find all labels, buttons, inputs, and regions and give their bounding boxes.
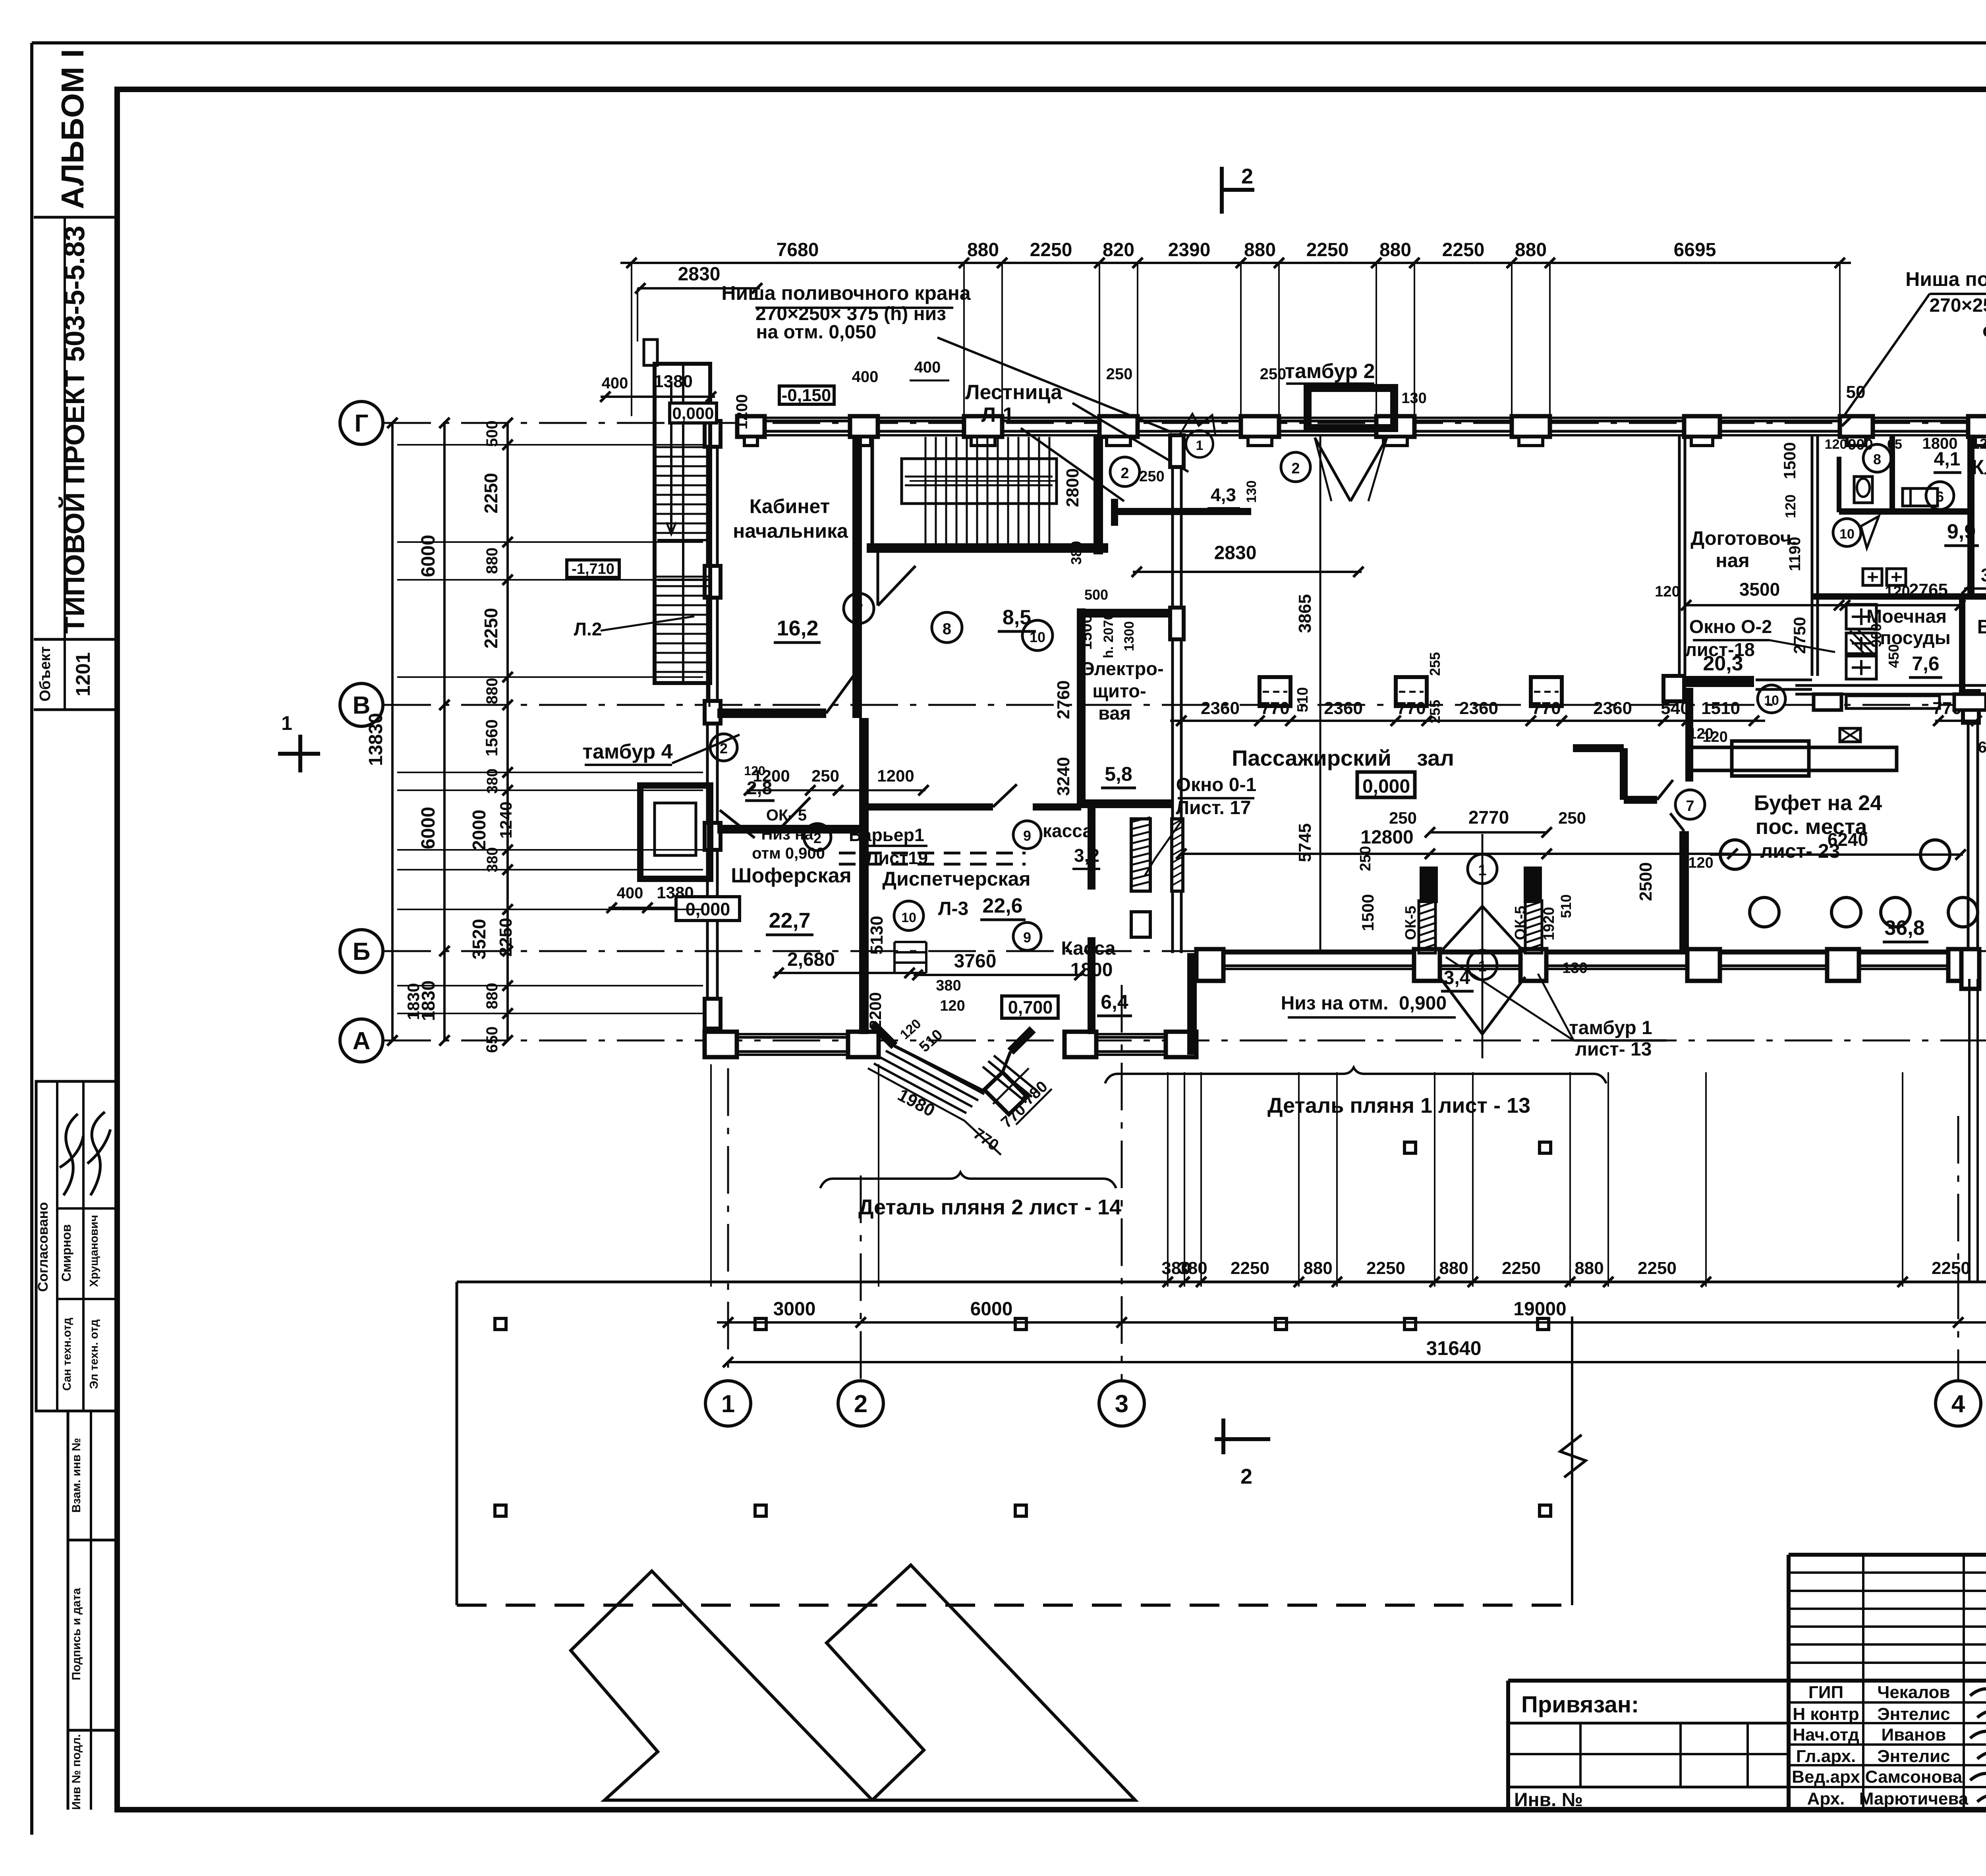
bay steps left flight <box>874 1044 984 1113</box>
svg-text:Инв № подл.: Инв № подл. <box>70 1734 83 1810</box>
svg-text:2250: 2250 <box>1932 1258 1971 1278</box>
kabinet door <box>826 675 854 713</box>
svg-text:5745: 5745 <box>1295 823 1315 862</box>
svg-text:Привязан:: Привязан: <box>1521 1692 1639 1718</box>
bottom dim row A <box>1157 1281 1717 1283</box>
svg-text:880: 880 <box>483 548 501 574</box>
sill rects below service block <box>1846 696 1940 708</box>
svg-text:Окно О-2: Окно О-2 <box>1689 616 1772 637</box>
bay landing platform <box>984 1072 1027 1114</box>
svg-text:Лист. 17: Лист. 17 <box>1176 797 1251 818</box>
svg-text:ОК-5: ОК-5 <box>1403 906 1419 940</box>
bottom witness lines <box>1167 1072 1169 1287</box>
svg-text:31640: 31640 <box>1426 1337 1481 1359</box>
svg-text:880: 880 <box>483 983 501 1009</box>
svg-text:Согласовано: Согласовано <box>35 1202 51 1292</box>
bay dimensions <box>868 1068 964 1121</box>
svg-text:1560: 1560 <box>482 719 501 756</box>
svg-text:А: А <box>353 1027 371 1055</box>
svg-text:880: 880 <box>483 678 501 704</box>
svg-text:Взам. инв №: Взам. инв № <box>70 1438 83 1513</box>
svg-text:Пассажирский: Пассажирский <box>1232 745 1391 770</box>
south wall centre hall and buffet <box>1196 952 1978 955</box>
svg-text:10: 10 <box>1030 629 1045 645</box>
bay steps right flight <box>983 1056 1037 1102</box>
shoferskaya walls <box>717 825 864 834</box>
svg-text:2390: 2390 <box>1168 239 1211 261</box>
level box -1.710 <box>567 560 619 577</box>
svg-text:250: 250 <box>1139 468 1164 485</box>
svg-text:510: 510 <box>1558 894 1574 918</box>
svg-text:2: 2 <box>1121 465 1129 482</box>
svg-text:120: 120 <box>1825 437 1847 452</box>
svg-text:2500: 2500 <box>1636 862 1656 901</box>
wall hall/buffet <box>1573 744 1624 752</box>
svg-text:2360: 2360 <box>1201 699 1240 718</box>
svg-text:Л.2: Л.2 <box>574 619 602 639</box>
svg-text:9,9: 9,9 <box>1947 520 1976 543</box>
svg-text:900: 900 <box>1848 436 1873 453</box>
section 2 bottom mark <box>1221 1419 1225 1454</box>
svg-text:3865: 3865 <box>1295 594 1315 633</box>
svg-text:13830: 13830 <box>365 713 386 766</box>
diagonal entrance bay walls <box>872 1024 894 1046</box>
svg-text:2830: 2830 <box>1214 542 1257 564</box>
svg-text:тамбур 4: тамбур 4 <box>583 740 673 763</box>
approval signatures <box>60 1114 83 1195</box>
north exterior wall window band <box>737 420 1986 423</box>
svg-text:380: 380 <box>484 847 501 872</box>
svg-text:2: 2 <box>1241 164 1253 188</box>
svg-text:начальника: начальника <box>733 520 848 542</box>
svg-text:130: 130 <box>1244 481 1259 503</box>
svg-text:Деталь пляня 1 лист - 13: Деталь пляня 1 лист - 13 <box>1267 1094 1530 1117</box>
svg-text:880: 880 <box>1303 1258 1332 1278</box>
axis circles left <box>340 401 383 444</box>
top witness lines <box>631 263 632 416</box>
buffet entry wall <box>1685 688 1693 782</box>
svg-text:10: 10 <box>1764 693 1779 708</box>
svg-text:3300: 3300 <box>1981 565 1986 585</box>
svg-text:ТИПОВОЙ ПРОЕКТ 503-5-5.83: ТИПОВОЙ ПРОЕКТ 503-5-5.83 <box>59 226 91 634</box>
svg-text:3500: 3500 <box>1739 579 1780 600</box>
svg-text:Чекалов: Чекалов <box>1877 1683 1950 1702</box>
dispatcher north wall <box>868 803 993 811</box>
svg-text:2250: 2250 <box>1306 239 1349 261</box>
svg-text:касса: касса <box>1043 820 1093 841</box>
svg-text:36,8: 36,8 <box>1884 917 1924 940</box>
svg-text:Объект: Объект <box>37 647 54 702</box>
svg-text:1240: 1240 <box>496 801 515 838</box>
svg-text:Диспетчерская: Диспетчерская <box>882 868 1030 890</box>
sheet outer border <box>32 41 1986 44</box>
svg-text:Ниша поливочного кряня: Ниша поливочного кряня <box>1905 268 1986 290</box>
svg-text:Электро-: Электро- <box>1081 658 1163 679</box>
svg-text:22,7: 22,7 <box>769 909 810 932</box>
svg-text:1: 1 <box>721 1390 735 1418</box>
svg-text:250: 250 <box>811 766 839 785</box>
svg-text:Лист19: Лист19 <box>866 848 928 868</box>
svg-text:120: 120 <box>1972 436 1986 452</box>
svg-text:7: 7 <box>854 601 863 619</box>
svg-text:Арх.: Арх. <box>1807 1789 1845 1808</box>
svg-text:Г: Г <box>354 410 368 437</box>
column squares <box>495 1318 506 1330</box>
svg-text:Подпись и дата: Подпись и дата <box>70 1588 83 1680</box>
svg-text:1300: 1300 <box>1122 621 1137 651</box>
svg-text:10: 10 <box>1839 527 1855 542</box>
svg-text:2250: 2250 <box>1502 1258 1541 1278</box>
svg-text:250: 250 <box>1389 809 1417 827</box>
svg-text:h. 2070: h. 2070 <box>1101 612 1116 658</box>
svg-text:1510: 1510 <box>1701 699 1740 718</box>
svg-text:400: 400 <box>852 368 879 386</box>
svg-text:8: 8 <box>943 620 951 638</box>
svg-text:400: 400 <box>602 374 628 392</box>
svg-text:4: 4 <box>1951 1390 1965 1418</box>
svg-text:на отм. 0,050: на отм. 0,050 <box>756 322 877 343</box>
west exterior wall <box>706 421 709 1055</box>
svg-text:2000: 2000 <box>469 810 489 850</box>
serving wall below dogotovochnaya <box>1663 676 1754 687</box>
dim row 3500/2765 <box>1686 604 1961 606</box>
svg-text:2360: 2360 <box>1324 699 1363 718</box>
svg-text:9: 9 <box>1023 929 1031 946</box>
svg-text:ная: ная <box>1716 550 1749 571</box>
svg-text:Н контр: Н контр <box>1793 1704 1859 1724</box>
svg-text:120: 120 <box>1688 855 1713 871</box>
north wall piers <box>737 416 765 437</box>
svg-text:1: 1 <box>1196 438 1204 453</box>
sink stack <box>1846 604 1876 629</box>
svg-text:Окно 0-1: Окно 0-1 <box>1176 774 1256 795</box>
svg-text:ГИП: ГИП <box>1808 1683 1843 1702</box>
svg-text:1200: 1200 <box>877 766 914 785</box>
svg-text:6695: 6695 <box>1674 239 1716 261</box>
sidebar approval table <box>36 1081 117 1411</box>
svg-text:щито-: щито- <box>1092 680 1146 701</box>
left witness lines <box>397 444 703 446</box>
level box 0,000 west <box>676 897 740 921</box>
svg-text:Смирнов: Смирнов <box>59 1224 73 1282</box>
svg-text:-1,710: -1,710 <box>572 561 614 577</box>
svg-text:2250: 2250 <box>1030 239 1072 261</box>
platform right verticals <box>1968 979 1971 1282</box>
svg-text:880: 880 <box>967 239 999 261</box>
svg-text:6000: 6000 <box>970 1299 1013 1320</box>
svg-text:Хрущанович: Хрущанович <box>88 1215 100 1287</box>
svg-text:250: 250 <box>1260 365 1287 383</box>
svg-text:7: 7 <box>1686 798 1694 814</box>
svg-text:Низ на: Низ на <box>761 826 814 843</box>
svg-text:65: 65 <box>1978 739 1986 756</box>
svg-text:450: 450 <box>1886 644 1902 668</box>
svg-text:Нач.отд: Нач.отд <box>1793 1725 1859 1745</box>
svg-text:Гл.арх.: Гл.арх. <box>1796 1747 1856 1766</box>
svg-text:тамбур 1: тамбур 1 <box>1569 1017 1652 1038</box>
title block left attachment box <box>1508 1679 1986 1683</box>
lobby 4,3 walls <box>1111 499 1118 526</box>
signature squiggles <box>1970 1681 1986 1696</box>
tambur1 door jamb piers <box>1421 868 1436 901</box>
svg-text:2770: 2770 <box>1468 807 1509 828</box>
svg-text:отм 0,900: отм 0,900 <box>752 845 825 862</box>
svg-text:Л-1: Л-1 <box>981 403 1014 427</box>
svg-text:3520: 3520 <box>469 919 489 959</box>
svg-text:2200: 2200 <box>866 992 885 1029</box>
chevron band 2 <box>827 1565 1135 1800</box>
svg-text:3760: 3760 <box>954 951 997 972</box>
svg-text:0,000: 0,000 <box>1362 776 1410 797</box>
svg-text:880: 880 <box>1575 1258 1603 1278</box>
svg-text:Шоферская: Шоферская <box>731 864 852 887</box>
svg-text:тамбур 2: тамбур 2 <box>1285 360 1375 383</box>
svg-text:2250: 2250 <box>496 918 516 957</box>
svg-text:2250: 2250 <box>481 608 501 648</box>
svg-text:2800: 2800 <box>1063 468 1082 507</box>
svg-text:19000: 19000 <box>1513 1299 1566 1320</box>
svg-text:вая: вая <box>1098 703 1131 724</box>
svg-text:120: 120 <box>1782 494 1799 518</box>
svg-text:лист- 13: лист- 13 <box>1575 1039 1652 1060</box>
WC fixtures <box>1854 477 1872 503</box>
svg-text:2: 2 <box>854 1390 867 1418</box>
stair L2 arrows <box>670 381 672 532</box>
svg-text:255: 255 <box>1427 700 1443 724</box>
top dimension rows <box>620 262 1851 264</box>
svg-text:130: 130 <box>1562 960 1587 977</box>
svg-text:2,8: 2,8 <box>747 778 772 798</box>
door mark near tambur2 <box>1186 430 1213 457</box>
svg-text:0,700: 0,700 <box>1008 997 1053 1017</box>
svg-text:20,3: 20,3 <box>1703 652 1743 675</box>
svg-text:Эл техн. отд: Эл техн. отд <box>88 1319 100 1389</box>
svg-text:250: 250 <box>1106 365 1133 383</box>
hall columns row <box>1260 677 1291 706</box>
svg-text:Л-3: Л-3 <box>938 898 968 919</box>
svg-text:380: 380 <box>1178 1258 1207 1278</box>
wall break zigzag <box>1179 414 1215 436</box>
svg-text:1201: 1201 <box>72 652 94 696</box>
svg-text:Лестница: Лестница <box>965 381 1063 404</box>
personnel rows <box>1789 1701 1986 1704</box>
svg-text:6240: 6240 <box>1828 829 1868 850</box>
svg-text:Венткамера: Венткамера <box>1977 616 1986 638</box>
svg-text:отм. 0,050: отм. 0,050 <box>1982 320 1986 341</box>
svg-text:770: 770 <box>1260 699 1289 718</box>
svg-text:6000: 6000 <box>418 535 439 577</box>
svg-text:120: 120 <box>940 998 965 1014</box>
svg-text:2360: 2360 <box>1459 699 1498 718</box>
tambur2 north box <box>1308 388 1394 428</box>
svg-text:3,2: 3,2 <box>1074 845 1099 866</box>
svg-text:1800: 1800 <box>1922 435 1958 452</box>
svg-text:12800: 12800 <box>1360 827 1413 848</box>
svg-text:Буфет на 24: Буфет на 24 <box>1754 791 1882 815</box>
svg-text:зал: зал <box>1417 745 1454 770</box>
svg-text:-0,150: -0,150 <box>782 386 831 405</box>
svg-text:10: 10 <box>901 910 916 925</box>
svg-text:65: 65 <box>1887 437 1902 452</box>
tambur1 south doors <box>1419 901 1435 953</box>
svg-text:2830: 2830 <box>678 264 721 285</box>
svg-text:0,000: 0,000 <box>672 404 714 423</box>
bottom dim row B <box>717 1321 1986 1324</box>
svg-text:2360: 2360 <box>1593 699 1632 718</box>
bottom dim row C <box>728 1361 1986 1363</box>
svg-text:5130: 5130 <box>867 916 887 955</box>
platform outline <box>457 1281 1986 1283</box>
buffet counter <box>1690 747 1897 770</box>
kassa booth walls <box>1088 808 1095 890</box>
service block partition hall/dogotovochnaya <box>1678 435 1681 675</box>
svg-text:22,6: 22,6 <box>982 894 1022 917</box>
svg-text:3000: 3000 <box>773 1299 816 1320</box>
svg-text:4,3: 4,3 <box>1211 484 1236 505</box>
section 2 top mark <box>1220 167 1224 214</box>
left sidebar stamp column <box>64 217 66 710</box>
svg-text:2250: 2250 <box>1366 1258 1405 1278</box>
svg-text:Барьер1: Барьер1 <box>849 825 924 845</box>
svg-text:510: 510 <box>1294 687 1311 712</box>
title block grid <box>1789 1553 1986 1557</box>
svg-text:Кабинет: Кабинет <box>750 495 830 517</box>
svg-text:1: 1 <box>281 712 292 734</box>
svg-text:0,900: 0,900 <box>1399 993 1447 1014</box>
svg-text:270×250 × 375 /h/низ ня: 270×250 × 375 /h/низ ня <box>1929 295 1986 316</box>
svg-text:400: 400 <box>914 359 941 376</box>
svg-text:2: 2 <box>1240 1465 1252 1488</box>
svg-text:2750: 2750 <box>1790 617 1809 654</box>
svg-text:3: 3 <box>1115 1390 1128 1418</box>
svg-text:6000: 6000 <box>418 807 439 849</box>
svg-text:500: 500 <box>1084 587 1108 603</box>
svg-text:400: 400 <box>617 884 643 902</box>
svg-text:8: 8 <box>1873 451 1881 467</box>
svg-text:Энтелис: Энтелис <box>1877 1704 1950 1724</box>
svg-text:250: 250 <box>1558 809 1586 827</box>
svg-text:820: 820 <box>1103 239 1134 261</box>
chevron band 1 <box>571 1571 872 1800</box>
main stair L1 <box>871 435 874 552</box>
svg-text:Самсонова: Самсонова <box>1865 1767 1963 1787</box>
step wall between left block and hall <box>1187 953 1197 1055</box>
elektroshchitovaya walls <box>1077 608 1086 808</box>
svg-text:Марютичева: Марютичева <box>1859 1789 1969 1808</box>
svg-text:Иванов: Иванов <box>1881 1725 1946 1745</box>
svg-text:650: 650 <box>483 1027 501 1053</box>
svg-text:2: 2 <box>720 740 728 757</box>
south wall left block <box>706 1036 879 1039</box>
svg-text:50: 50 <box>1846 382 1866 402</box>
hall west wall <box>1171 435 1174 819</box>
svg-text:1200: 1200 <box>733 394 751 430</box>
svg-text:120: 120 <box>1655 583 1680 600</box>
left vertical dimension chains <box>391 423 394 1040</box>
svg-text:3240: 3240 <box>1054 757 1073 796</box>
svg-text:2250: 2250 <box>1442 239 1485 261</box>
svg-text:770: 770 <box>1397 699 1426 718</box>
svg-text:380: 380 <box>936 977 961 994</box>
svg-text:1830: 1830 <box>404 983 423 1020</box>
svg-text:Касса: Касса <box>1061 938 1116 959</box>
svg-text:Вед.арх: Вед.арх <box>1792 1767 1860 1787</box>
svg-text:Низ на отм.: Низ на отм. <box>1281 993 1389 1014</box>
WC and service walls <box>1811 435 1814 676</box>
sidebar lower cells <box>67 1411 70 1810</box>
mini stair L3 <box>894 941 926 943</box>
svg-text:1190: 1190 <box>1786 537 1804 571</box>
svg-text:770: 770 <box>1532 699 1561 718</box>
svg-text:7680: 7680 <box>777 239 819 261</box>
fire escape stair block L2 <box>655 364 710 683</box>
tambur4 porch <box>640 786 710 879</box>
svg-text:880: 880 <box>1244 239 1276 261</box>
svg-text:Б: Б <box>353 938 371 965</box>
svg-text:2250: 2250 <box>481 473 501 513</box>
svg-text:2,680: 2,680 <box>787 949 835 970</box>
svg-text:880: 880 <box>1515 239 1547 261</box>
svg-text:2: 2 <box>1291 460 1300 477</box>
svg-text:6,4: 6,4 <box>1101 991 1128 1013</box>
svg-text:880: 880 <box>1439 1258 1468 1278</box>
svg-text:Энтелис: Энтелис <box>1877 1747 1950 1766</box>
buffet east wall <box>1967 691 1970 969</box>
svg-text:5,8: 5,8 <box>1105 763 1132 785</box>
axis lines horizontal <box>383 422 1986 424</box>
kassa hatched windows <box>1131 819 1150 891</box>
axis circles 1-5 <box>705 1381 751 1426</box>
svg-text:Деталь пляня 2 лист - 14: Деталь пляня 2 лист - 14 <box>858 1195 1121 1219</box>
svg-text:ОК- 5: ОК- 5 <box>766 807 807 824</box>
svg-text:АЛЬБОМ I: АЛЬБОМ I <box>55 49 90 209</box>
svg-text:Доготовоч.: Доготовоч. <box>1690 528 1797 549</box>
level box 0.000 at stair <box>670 403 717 423</box>
top pair small sinks <box>1863 569 1882 585</box>
svg-text:1380: 1380 <box>654 372 693 391</box>
svg-text:9: 9 <box>1023 828 1031 844</box>
svg-text:880: 880 <box>1379 239 1411 261</box>
svg-text:2250: 2250 <box>1231 1258 1269 1278</box>
svg-text:Инв. №: Инв. № <box>1514 1789 1583 1810</box>
svg-text:120: 120 <box>744 764 765 778</box>
svg-text:7,6: 7,6 <box>1912 652 1940 675</box>
svg-text:1500: 1500 <box>1780 442 1799 479</box>
svg-text:1500: 1500 <box>1358 894 1377 931</box>
svg-text:Сан техн.отд: Сан техн.отд <box>61 1318 73 1391</box>
svg-text:500: 500 <box>483 421 501 447</box>
section 1 mark left <box>278 752 320 756</box>
axis vertical lines 1-5 <box>727 1068 729 1381</box>
svg-text:2250: 2250 <box>1638 1258 1677 1278</box>
kabinet nachalnika walls <box>852 435 862 718</box>
svg-text:16,2: 16,2 <box>777 616 818 640</box>
svg-text:250: 250 <box>1357 846 1374 871</box>
svg-text:2760: 2760 <box>1054 680 1073 719</box>
svg-text:Кладовая: Кладовая <box>1971 456 1986 479</box>
svg-text:255: 255 <box>1427 652 1443 676</box>
